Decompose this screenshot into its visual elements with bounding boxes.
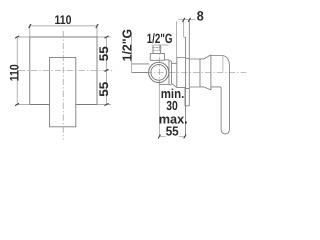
svg-text:55: 55 [97,46,111,61]
wall jog top [184,20,186,37]
flange block [150,53,164,60]
tick left-bottom [15,103,19,105]
hub cone bottom [200,87,211,90]
tick top-left [29,24,31,28]
escutcheon plate [185,20,189,106]
tick left-top [15,36,19,38]
body bottom edges [159,84,177,88]
tick 55-left [158,135,160,139]
max 55 dimension line [159,135,185,137]
lever contour line [222,56,224,72]
tick right-top [105,36,109,38]
svg-text:55: 55 [166,123,179,138]
leader under label [154,44,169,46]
valve rough-in box [50,57,76,126]
left port [132,64,150,73]
wall line [185,37,187,136]
hub cone top [200,55,211,59]
left port vertical leader line [131,33,133,72]
horizontal centerline [19,69,113,71]
svg-text:1/2"G: 1/2"G [147,31,173,46]
cartridge outer circle [149,62,169,82]
tick 8-left [183,18,185,22]
svg-text:55: 55 [97,82,111,97]
cartridge inner circle [151,65,167,81]
vertical centerline [62,31,64,140]
threaded stub [153,45,161,53]
mounting sleeve [177,58,186,88]
svg-text:1/2"G: 1/2"G [120,29,135,62]
svg-text:110: 110 [7,64,21,81]
tick right-bottom [105,103,109,105]
top dimension line 110 [30,24,97,37]
tick 8-right [188,18,190,22]
svg-text:110: 110 [55,13,72,27]
left dimension line 110 [16,37,30,105]
tick right-mid [105,69,109,71]
thread ticks [152,48,162,51]
horizontal centerline [134,71,247,73]
svg-text:8: 8 [197,9,204,24]
square plate outline [30,37,97,105]
dimension 8 [178,19,195,21]
right dimension line 55+55 [97,37,111,105]
hub outer face [210,55,212,90]
lever outline [211,56,230,134]
tick 55-right [184,135,186,139]
sleeve front line extended up [175,22,177,58]
vertical centerline of valve [158,45,160,85]
body right steps [165,60,177,85]
extension line below valve [158,84,160,136]
min/30 extension bracket [184,88,186,106]
tick top-right [96,24,98,28]
handle hub base [189,59,200,87]
